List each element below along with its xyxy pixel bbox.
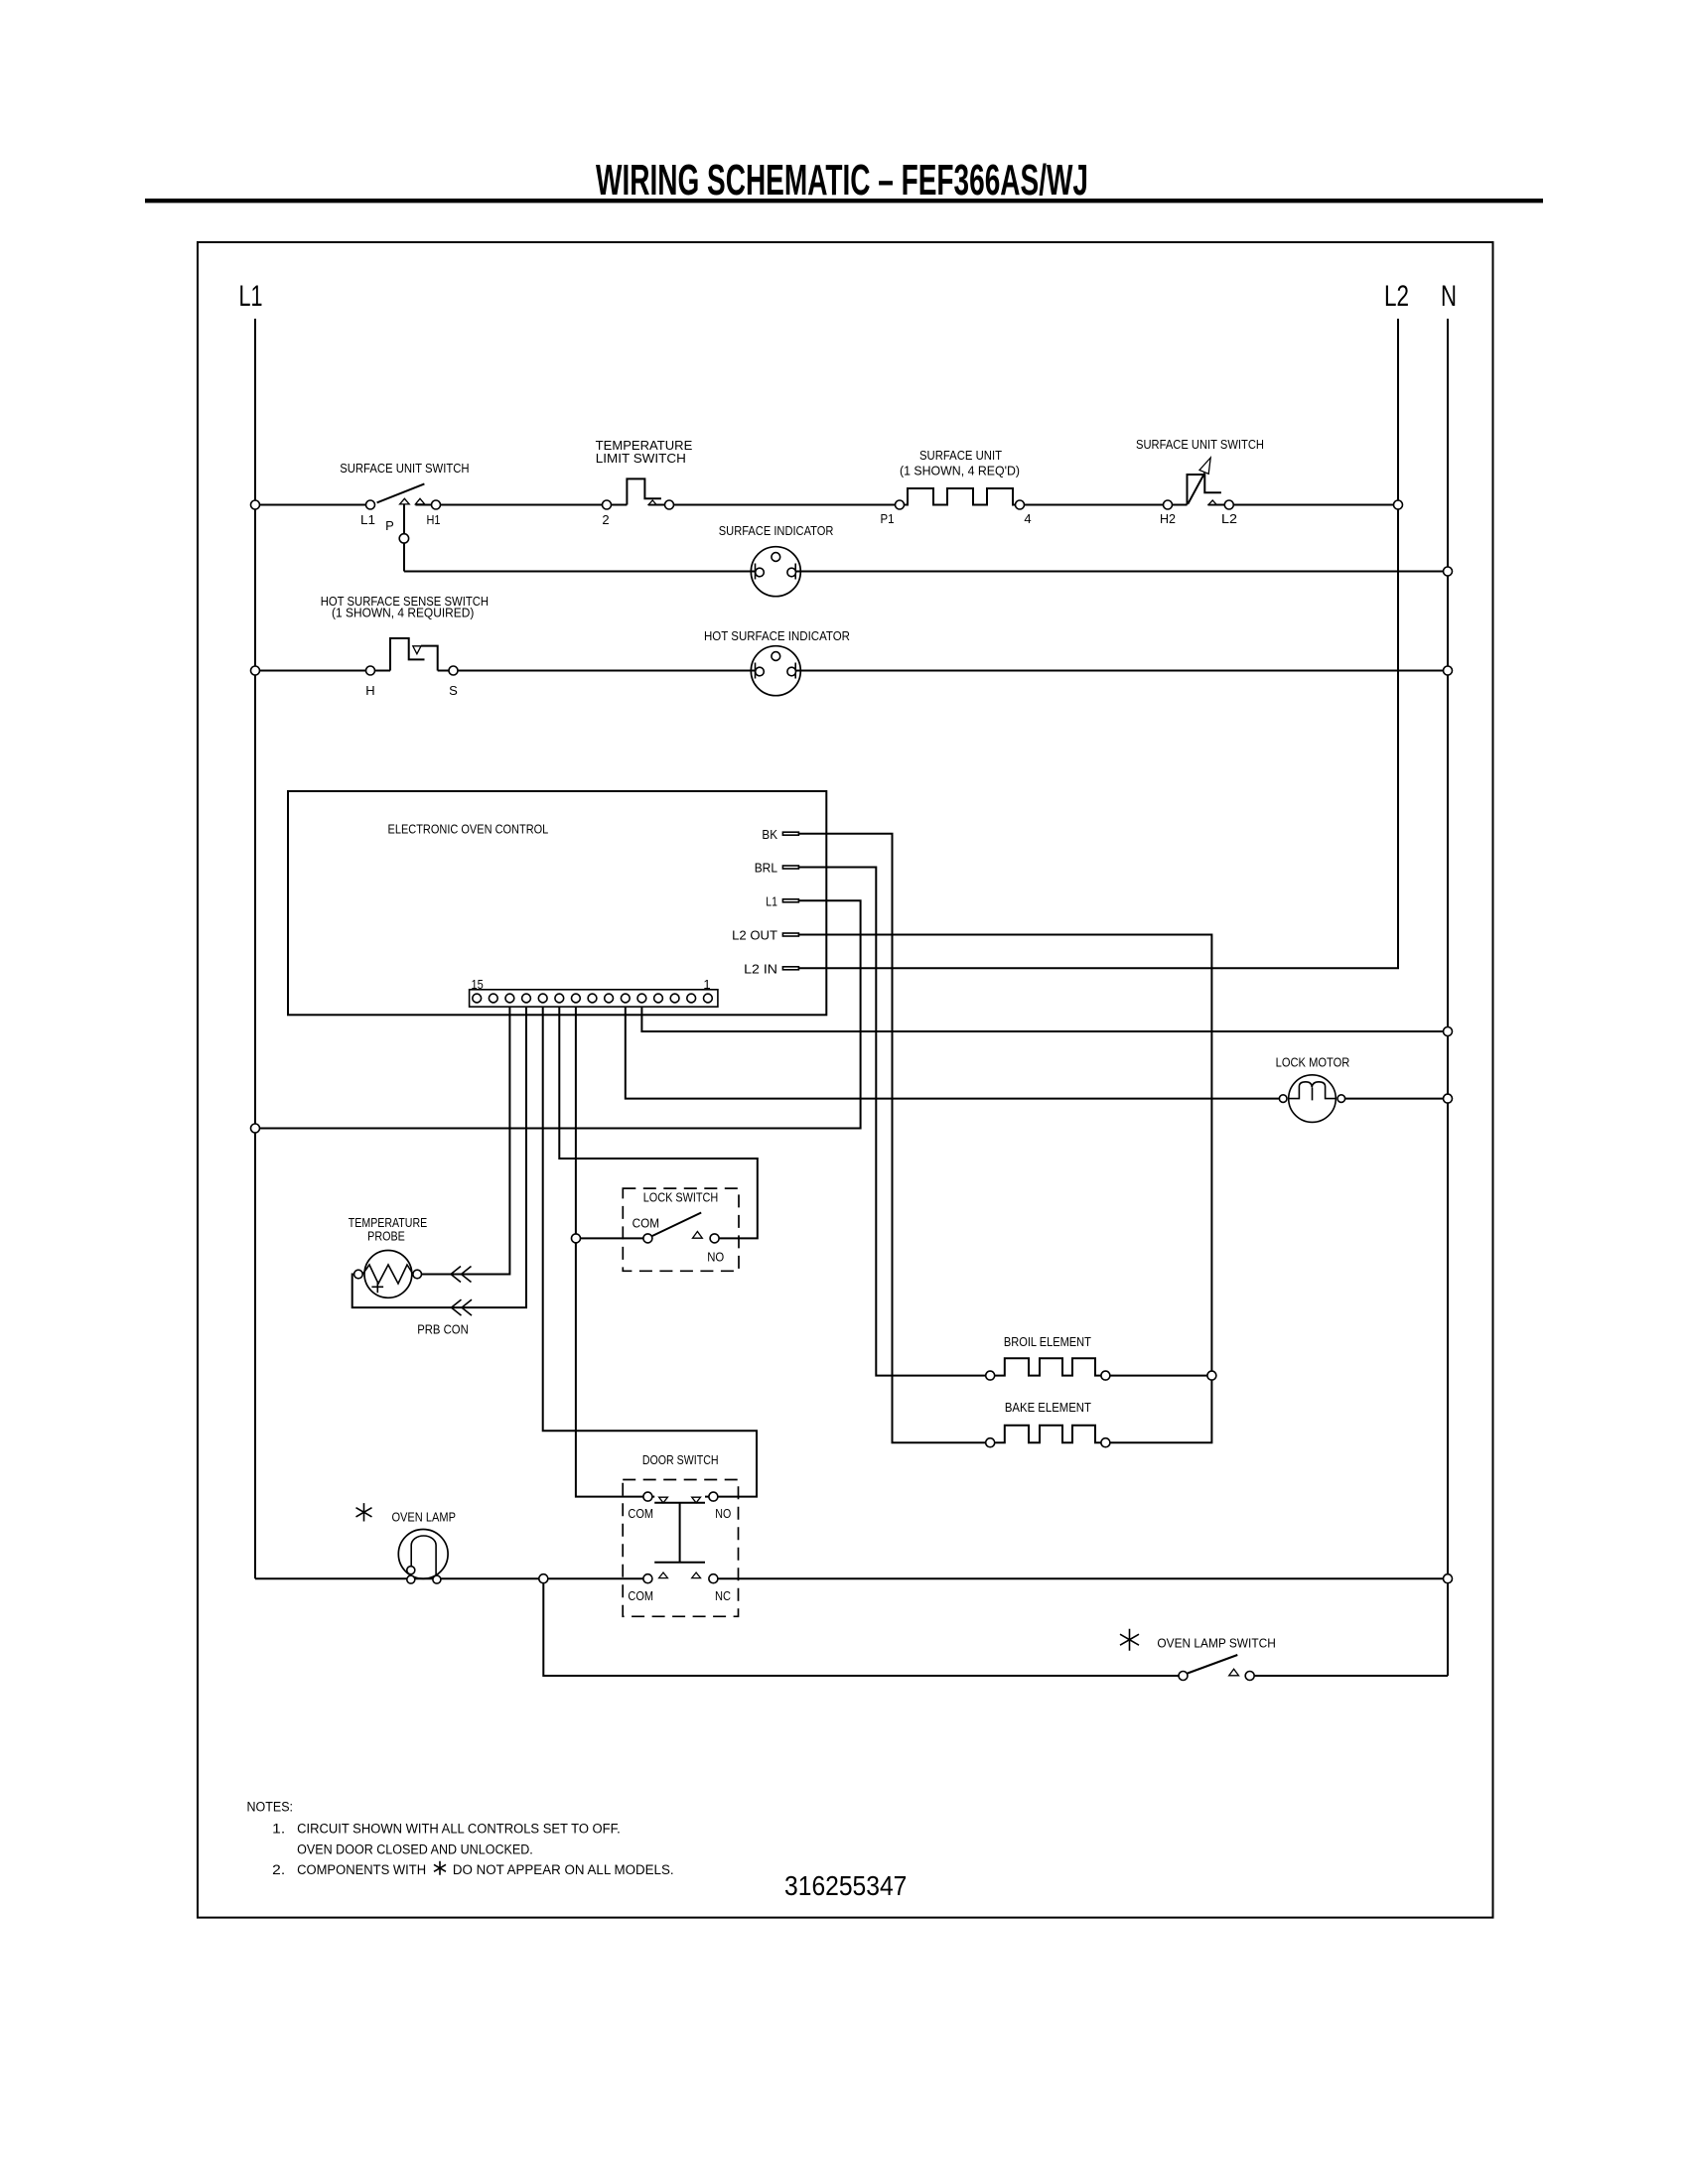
svg-text:L2 IN: L2 IN: [744, 961, 777, 976]
svg-text:L2: L2: [1221, 511, 1237, 526]
svg-text:COMPONENTS WITH: COMPONENTS WITH: [297, 1862, 426, 1877]
svg-text:COM: COM: [628, 1506, 653, 1521]
svg-text:BK: BK: [762, 827, 777, 842]
svg-text:DO NOT APPEAR ON ALL MODELS.: DO NOT APPEAR ON ALL MODELS.: [453, 1862, 674, 1877]
svg-text:L2: L2: [1384, 280, 1409, 313]
svg-text:OVEN DOOR CLOSED AND UNLOCKED.: OVEN DOOR CLOSED AND UNLOCKED.: [297, 1842, 533, 1856]
svg-text:H1: H1: [427, 512, 441, 527]
svg-text:H: H: [365, 683, 374, 698]
svg-text:L2 OUT: L2 OUT: [732, 928, 777, 943]
svg-text:2.: 2.: [272, 1862, 285, 1877]
svg-text:SURFACE INDICATOR: SURFACE INDICATOR: [719, 523, 834, 538]
svg-text:SURFACE UNIT SWITCH: SURFACE UNIT SWITCH: [1136, 437, 1264, 452]
svg-text:L1: L1: [360, 512, 375, 527]
svg-text:LOCK SWITCH: LOCK SWITCH: [643, 1190, 719, 1205]
svg-text:L1: L1: [239, 280, 263, 313]
svg-text:P: P: [385, 518, 394, 533]
svg-text:BROIL ELEMENT: BROIL ELEMENT: [1004, 1334, 1091, 1349]
svg-text:WIRING SCHEMATIC – FEF366AS/WJ: WIRING SCHEMATIC – FEF366AS/WJ: [596, 156, 1088, 205]
svg-text:S: S: [449, 683, 458, 698]
svg-text:(1 SHOWN, 4 REQUIRED): (1 SHOWN, 4 REQUIRED): [332, 606, 474, 620]
svg-text:NO: NO: [715, 1506, 731, 1521]
svg-text:H2: H2: [1160, 511, 1176, 526]
svg-text:LIMIT SWITCH: LIMIT SWITCH: [596, 451, 686, 466]
svg-text:1.: 1.: [272, 1822, 285, 1837]
svg-text:CIRCUIT SHOWN WITH ALL CONTROL: CIRCUIT SHOWN WITH ALL CONTROLS SET TO O…: [297, 1822, 621, 1837]
svg-text:ELECTRONIC OVEN CONTROL: ELECTRONIC OVEN CONTROL: [388, 821, 549, 836]
svg-text:PROBE: PROBE: [367, 1228, 405, 1243]
svg-text:OVEN LAMP: OVEN LAMP: [391, 1510, 456, 1525]
svg-text:P1: P1: [881, 511, 895, 526]
svg-text:HOT SURFACE INDICATOR: HOT SURFACE INDICATOR: [704, 628, 850, 643]
svg-text:SURFACE UNIT: SURFACE UNIT: [919, 448, 1002, 463]
svg-text:1: 1: [703, 977, 710, 992]
svg-text:BAKE ELEMENT: BAKE ELEMENT: [1005, 1400, 1091, 1415]
svg-text:NO: NO: [707, 1250, 724, 1265]
svg-text:SURFACE UNIT SWITCH: SURFACE UNIT SWITCH: [340, 461, 469, 476]
svg-text:NOTES:: NOTES:: [247, 1800, 294, 1815]
svg-text:COM: COM: [628, 1588, 653, 1603]
svg-text:4: 4: [1024, 511, 1031, 526]
svg-text:15: 15: [471, 977, 483, 992]
svg-text:COM: COM: [633, 1216, 659, 1231]
svg-text:PRB CON: PRB CON: [417, 1321, 469, 1336]
svg-text:L1: L1: [766, 893, 777, 908]
svg-text:DOOR SWITCH: DOOR SWITCH: [642, 1452, 719, 1467]
svg-text:BRL: BRL: [755, 860, 777, 875]
svg-text:LOCK MOTOR: LOCK MOTOR: [1276, 1055, 1350, 1070]
svg-text:(1 SHOWN, 4 REQ'D): (1 SHOWN, 4 REQ'D): [900, 464, 1020, 478]
svg-text:NC: NC: [715, 1588, 731, 1603]
svg-text:N: N: [1441, 280, 1457, 313]
svg-text:316255347: 316255347: [784, 1870, 907, 1901]
svg-text:OVEN LAMP SWITCH: OVEN LAMP SWITCH: [1157, 1636, 1275, 1651]
svg-text:2: 2: [602, 512, 609, 527]
